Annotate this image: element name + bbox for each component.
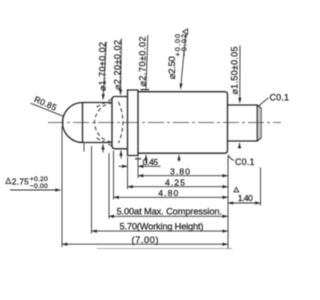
dia 2.70 arrow tee bar bbox=[141, 89, 150, 91]
dome chord line bbox=[82, 103, 84, 143]
dim 5.00 line bbox=[109, 215, 228, 217]
extension line max-compression tip x109 bbox=[108, 153, 110, 219]
tail chamfer edge line bbox=[256, 105, 258, 140]
dia 2.20 bottom arrow stub bbox=[120, 151, 122, 159]
svg-text:3.80: 3.80 bbox=[170, 167, 190, 177]
dia 2.70 label line bbox=[146, 35, 148, 89]
dim 7.00 line bbox=[62, 243, 228, 245]
dim 4.80 line bbox=[114, 196, 228, 198]
centerline bbox=[48, 122, 281, 124]
scan ghost line under 7.00 bbox=[97, 248, 232, 250]
svg-text:⌀2.20±0.02: ⌀2.20±0.02 bbox=[113, 40, 123, 90]
barrel (2.50 body) outline bbox=[138, 92, 228, 154]
svg-text:2.75: 2.75 bbox=[12, 176, 29, 186]
svg-text:5.70(Working Height): 5.70(Working Height) bbox=[120, 221, 204, 231]
dia 1.70 bottom arrow stub bbox=[102, 144, 104, 152]
extension line collar left x113.5 bbox=[113, 151, 115, 200]
svg-text:4.25: 4.25 bbox=[165, 178, 185, 188]
C0.1 top leader bbox=[259, 98, 269, 106]
dia 2.70 bottom arrow stub bbox=[145, 155, 147, 163]
svg-text:⌀2.70±0.02: ⌀2.70±0.02 bbox=[137, 37, 147, 87]
label dia2.50 flag triangle bbox=[183, 29, 188, 35]
svg-text:(7.00): (7.00) bbox=[132, 235, 159, 245]
extension line flange right x138 bbox=[137, 157, 139, 178]
svg-text:C0.1: C0.1 bbox=[235, 157, 255, 167]
svg-text:+0.20: +0.20 bbox=[30, 176, 48, 183]
note triangle 2.75 bbox=[6, 178, 11, 183]
note 2.75 leader arrow bbox=[10, 189, 61, 191]
dia 1.50 bottom arrow stub bbox=[239, 143, 241, 149]
dim 3.80 line bbox=[138, 175, 228, 177]
svg-text:−0.00: −0.00 bbox=[30, 183, 48, 190]
stub below dome chord bbox=[83, 144, 85, 152]
extension line dome tip x62 bbox=[61, 127, 63, 248]
dim 1.40 line bbox=[228, 202, 261, 204]
svg-text:⌀1.50±0.05: ⌀1.50±0.05 bbox=[230, 47, 240, 95]
extension line flange left x127.5 bbox=[127, 157, 129, 189]
dim 0.45 line arrows outside bbox=[119, 165, 128, 167]
dia 2.20 label line with arrow bbox=[120, 39, 123, 95]
svg-text:1.40: 1.40 bbox=[238, 193, 253, 203]
svg-text:4.80: 4.80 bbox=[158, 188, 178, 198]
svg-text:−0.02: −0.02 bbox=[179, 34, 188, 57]
hidden taper bottom bbox=[97, 138, 113, 146]
hidden dashed dome (plunger at working height) bbox=[95, 103, 113, 142]
extension line working-height tip x91.5 bbox=[91, 146, 93, 234]
plunger dome tip bbox=[63, 103, 83, 143]
dia 2.50 bottom arrow stub bbox=[178, 155, 180, 162]
hidden plunger ball arc bbox=[119, 102, 123, 143]
R0.85 leader bbox=[31, 103, 64, 116]
svg-text:C0.1: C0.1 bbox=[270, 93, 290, 103]
svg-text:⌀2.50: ⌀2.50 bbox=[167, 56, 178, 79]
dim 4.25 line bbox=[128, 186, 228, 188]
plunger cylinder bottom edge bbox=[83, 142, 113, 144]
dia 2.50 label line with arrow bbox=[181, 35, 186, 89]
hidden taper top bbox=[97, 99, 113, 107]
tail (1.50) outline with end chamfers bbox=[228, 105, 262, 141]
dim 5.70 line bbox=[92, 230, 228, 232]
flange (2.70) outline bbox=[128, 90, 139, 156]
svg-text:⌀1.70±0.02: ⌀1.70±0.02 bbox=[98, 42, 108, 91]
svg-text:R0.85: R0.85 bbox=[33, 94, 59, 113]
plunger cylinder top edge bbox=[83, 102, 113, 104]
tail chamfer shading band bbox=[258, 106, 261, 140]
collar (2.20 shoulder) outline bbox=[112, 97, 128, 149]
svg-text:0.45: 0.45 bbox=[143, 157, 159, 167]
extension line tail end x260.5 bbox=[260, 168, 262, 206]
C0.1 bottom leader bbox=[228, 155, 234, 161]
extension line barrel end x228 bbox=[227, 156, 229, 249]
dia 1.70 label line with arrow bbox=[103, 42, 106, 100]
dim 0.45 tee tick on right extension bbox=[135, 158, 141, 160]
dia 1.50 label line with arrow bbox=[239, 46, 241, 104]
svg-text:5.00at Max. Compression.: 5.00at Max. Compression. bbox=[117, 207, 223, 217]
dim flag triangle 1.40 bbox=[234, 188, 239, 192]
